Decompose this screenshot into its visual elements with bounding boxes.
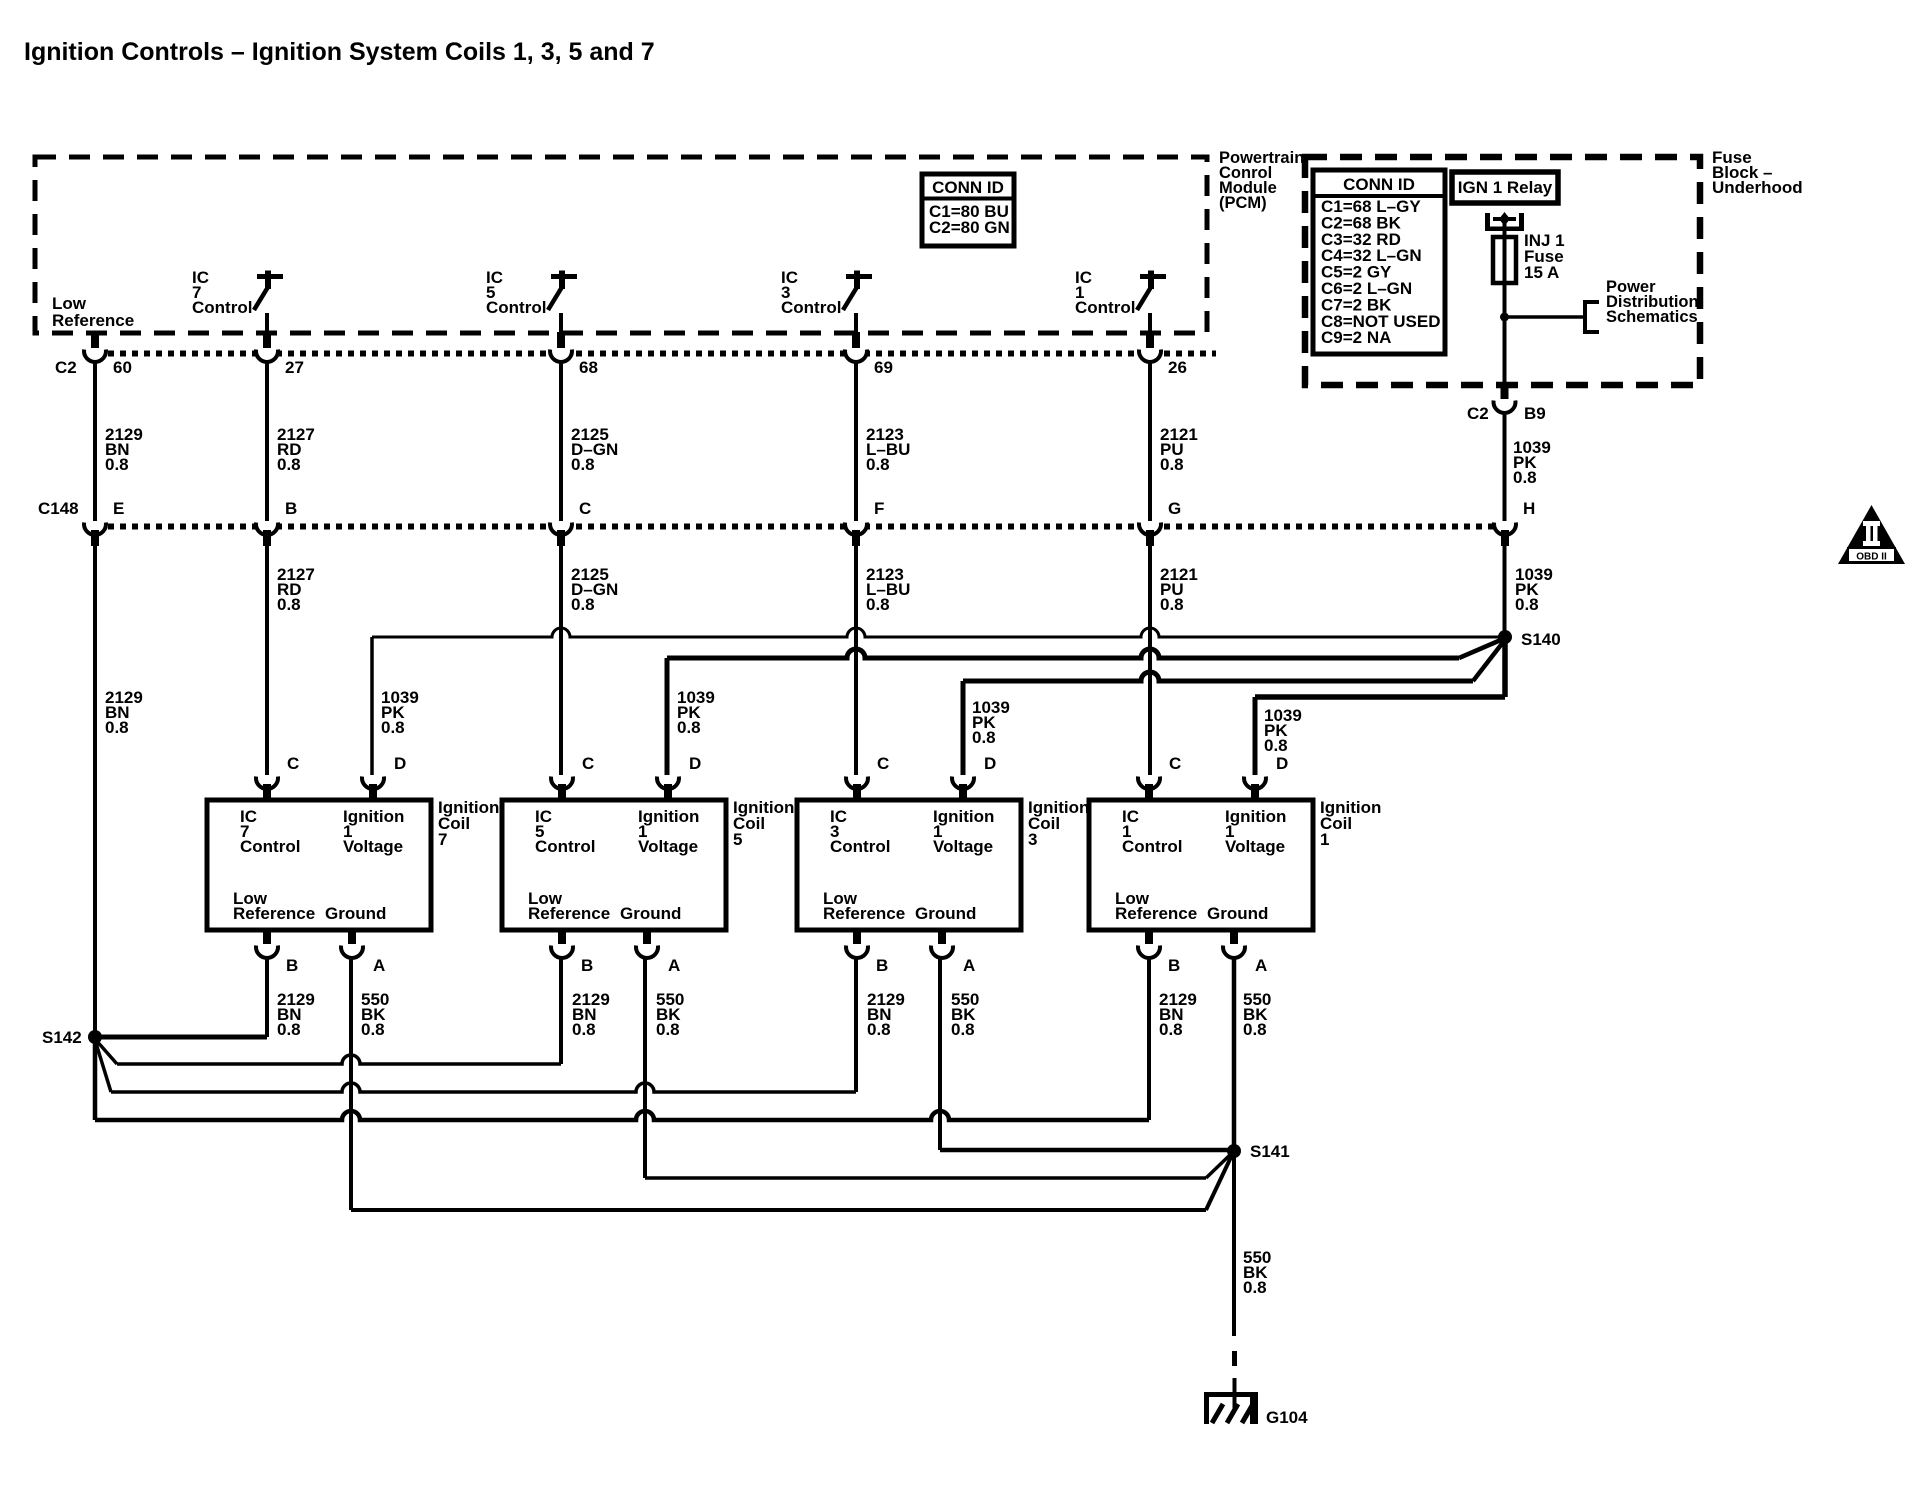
splice S142	[42, 1028, 102, 1047]
svg-text:0.8: 0.8	[571, 595, 595, 614]
svg-text:G: G	[1168, 499, 1181, 518]
wire from coil 1 pin B to S142	[95, 956, 1149, 1120]
connector C148 label	[38, 499, 79, 518]
svg-text:0.8: 0.8	[1264, 736, 1288, 755]
ignition coil 1 name label	[1320, 798, 1381, 849]
svg-text:0.8: 0.8	[381, 718, 405, 737]
svg-text:B: B	[876, 956, 888, 975]
wire from fuse to connector B9	[1503, 283, 1507, 385]
wire from coil 3 pin A to S141	[940, 956, 1232, 1150]
wire 1039 PK 0.8 feed S140 to coil 7 D	[372, 628, 1503, 775]
svg-text:S140: S140	[1521, 630, 1561, 649]
svg-text:Control: Control	[486, 298, 546, 317]
ignition coil 1 box	[1089, 800, 1313, 930]
wire 1039 PK 0.8 from B9 to C148 pin H	[1505, 413, 1551, 521]
svg-text:0.8: 0.8	[277, 1020, 301, 1039]
transistor switch IC 7 Control inside PCM	[192, 268, 283, 334]
connector C2 pin 26 terminal	[1139, 332, 1187, 377]
svg-text:69: 69	[874, 358, 893, 377]
svg-text:0.8: 0.8	[361, 1020, 385, 1039]
svg-text:C2: C2	[1467, 404, 1489, 423]
wire 2129 BN 0.8 below coil 1 pin B	[1159, 990, 1197, 1039]
ignition coil 3 name label	[1028, 798, 1089, 849]
svg-text:Reference: Reference	[823, 904, 905, 923]
svg-text:Underhood: Underhood	[1712, 178, 1803, 197]
svg-text:D: D	[984, 754, 996, 773]
junction node to power distribution	[1500, 313, 1585, 322]
svg-text:0.8: 0.8	[867, 1020, 891, 1039]
svg-text:5: 5	[733, 830, 742, 849]
svg-text:Schematics: Schematics	[1606, 308, 1698, 326]
ignition coil 3 box	[797, 800, 1021, 930]
wire 1039 PK 0.8 from C148 pin H to splice S140	[1505, 546, 1553, 637]
svg-text:A: A	[373, 956, 385, 975]
svg-text:IGN 1 Relay: IGN 1 Relay	[1458, 178, 1553, 197]
coil 7 pin D terminal	[362, 754, 406, 800]
wire 2125 D-GN 0.8 from C2 to C148	[561, 362, 618, 521]
svg-text:A: A	[1255, 956, 1267, 975]
svg-text:Reference: Reference	[528, 904, 610, 923]
wire 1039 PK 0.8 feed S140 to coil 1 D	[1255, 637, 1505, 775]
wire 2121 PU 0.8 from C2 to C148	[1150, 362, 1198, 521]
connector C2 pin 69 terminal	[845, 332, 893, 377]
coil 1 pin C terminal	[1138, 754, 1181, 800]
svg-text:B: B	[286, 956, 298, 975]
svg-text:C148: C148	[38, 499, 79, 518]
svg-text:B: B	[1168, 956, 1180, 975]
svg-text:D: D	[1276, 754, 1288, 773]
svg-text:0.8: 0.8	[1515, 595, 1539, 614]
svg-text:B9: B9	[1524, 404, 1546, 423]
ignition coil 7 box	[207, 800, 431, 930]
wire 550 BK 0.8 below coil 3 pin A	[951, 990, 979, 1039]
wire 2129 BN 0.8 below coil 5 pin B	[572, 990, 610, 1039]
wire 1039 PK 0.8 feed S140 to coil 3 D	[963, 641, 1504, 775]
svg-text:B: B	[581, 956, 593, 975]
svg-text:26: 26	[1168, 358, 1187, 377]
wire 2129 BN 0.8 below coil 3 pin B	[867, 990, 905, 1039]
svg-text:Ground: Ground	[915, 904, 976, 923]
fuse INJ 1 15 A	[1493, 231, 1565, 283]
connector C148 pin H terminal	[1494, 499, 1535, 546]
svg-text:Control: Control	[192, 298, 252, 317]
IGN 1 Relay box label	[1452, 172, 1558, 203]
connector C2 pin B9 terminal (fuse block)	[1467, 385, 1546, 423]
wire 550 BK 0.8 below coil 1 pin A	[1243, 990, 1271, 1039]
splice S141	[1227, 1142, 1290, 1161]
svg-text:27: 27	[285, 358, 304, 377]
coil 5 pin B terminal	[551, 930, 593, 975]
wire 2129 BN 0.8 from C148 pin E down to splice S142	[95, 546, 143, 1037]
coil 7 pin A terminal	[341, 930, 385, 975]
wire 2129 BN 0.8 from C2 to C148	[95, 362, 143, 521]
svg-text:C2: C2	[55, 358, 77, 377]
svg-text:G104: G104	[1266, 1408, 1308, 1427]
svg-text:C: C	[1169, 754, 1181, 773]
PCM module dashed box	[35, 157, 1207, 333]
svg-text:3: 3	[1028, 830, 1037, 849]
connector C2 pin 60 terminal	[84, 332, 132, 377]
wire 550 BK 0.8 from S141 to ground G104	[1232, 1151, 1271, 1410]
svg-text:0.8: 0.8	[277, 455, 301, 474]
Fuse Block name label	[1712, 148, 1803, 197]
wire from coil 7 pin B to S142	[95, 956, 267, 1037]
ignition coil 7 name label	[438, 798, 499, 849]
coil 3 pin B terminal	[846, 930, 888, 975]
svg-text:B: B	[285, 499, 297, 518]
svg-text:0.8: 0.8	[571, 455, 595, 474]
transistor switch IC 5 Control inside PCM	[486, 268, 577, 334]
svg-text:0.8: 0.8	[1243, 1020, 1267, 1039]
svg-text:C: C	[579, 499, 591, 518]
wire 2129 BN 0.8 below coil 7 pin B	[277, 990, 315, 1039]
svg-text:H: H	[1523, 499, 1535, 518]
svg-text:C: C	[877, 754, 889, 773]
svg-text:Voltage: Voltage	[638, 837, 698, 856]
ground G104 symbol	[1204, 1392, 1308, 1427]
svg-text:1: 1	[1320, 830, 1329, 849]
Fuse Block dashed box	[1305, 157, 1700, 385]
connector C148 pin C terminal	[550, 499, 591, 546]
svg-text:OBD II: OBD II	[1856, 552, 1887, 563]
svg-text:C2=80 GN: C2=80 GN	[929, 218, 1010, 237]
svg-text:S141: S141	[1250, 1142, 1290, 1161]
svg-text:Control: Control	[535, 837, 595, 856]
svg-text:0.8: 0.8	[866, 455, 890, 474]
connector C148 pin E terminal	[84, 499, 124, 546]
connector C148 pin B terminal	[256, 499, 297, 546]
svg-text:A: A	[963, 956, 975, 975]
wire from coil 5 pin A to S141	[645, 956, 1232, 1178]
PCM Low Reference pin label	[52, 294, 134, 330]
wire 2123 L-BU 0.8 from C2 to C148	[856, 362, 910, 521]
coil 5 pin A terminal	[636, 930, 680, 975]
Fuse Block CONN ID table	[1313, 170, 1445, 354]
svg-text:F: F	[874, 499, 884, 518]
svg-text:Control: Control	[830, 837, 890, 856]
coil 5 pin C terminal	[551, 754, 594, 800]
PCM CONN ID table	[922, 174, 1014, 246]
coil 7 pin C terminal	[256, 754, 299, 800]
wire 550 BK 0.8 below coil 5 pin A	[656, 990, 684, 1039]
ignition coil 5 name label	[733, 798, 794, 849]
svg-text:0.8: 0.8	[972, 728, 996, 747]
coil 1 pin B terminal	[1138, 930, 1180, 975]
wire 550 BK 0.8 below coil 7 pin A	[361, 990, 389, 1039]
wire from coil 5 pin B to S142	[95, 956, 561, 1064]
wire 2121 PU 0.8 from C148 to coil	[1150, 546, 1198, 775]
splice S140	[1498, 630, 1561, 649]
wire 2127 RD 0.8 from C148 to coil	[267, 546, 315, 775]
svg-text:Reference: Reference	[1115, 904, 1197, 923]
svg-text:0.8: 0.8	[656, 1020, 680, 1039]
svg-text:0.8: 0.8	[677, 718, 701, 737]
svg-text:0.8: 0.8	[1160, 455, 1184, 474]
svg-text:0.8: 0.8	[951, 1020, 975, 1039]
svg-text:Voltage: Voltage	[343, 837, 403, 856]
wire from coil 3 pin B to S142	[95, 956, 856, 1092]
connector C2 label	[55, 358, 77, 377]
coil 1 pin A terminal	[1223, 930, 1267, 975]
svg-text:Ignition Controls – Ignition S: Ignition Controls – Ignition System Coil…	[24, 38, 655, 66]
svg-text:D: D	[394, 754, 406, 773]
svg-text:60: 60	[113, 358, 132, 377]
svg-text:7: 7	[438, 830, 447, 849]
coil 1 pin D terminal	[1244, 754, 1288, 800]
wire 1039 PK 0.8 feed S140 to coil 5 D	[667, 639, 1503, 775]
coil 7 pin B terminal	[256, 930, 298, 975]
svg-text:Reference: Reference	[52, 311, 134, 330]
svg-text:Control: Control	[781, 298, 841, 317]
power distribution schematics bracket	[1585, 278, 1699, 332]
wire 2127 RD 0.8 from C2 to C148	[267, 362, 315, 521]
svg-text:Ground: Ground	[325, 904, 386, 923]
svg-text:C9=2 NA: C9=2 NA	[1321, 328, 1391, 347]
OBD II marker	[1838, 505, 1905, 564]
svg-text:Control: Control	[1122, 837, 1182, 856]
PCM name label	[1219, 149, 1304, 212]
svg-text:Voltage: Voltage	[933, 837, 993, 856]
svg-text:CONN ID: CONN ID	[932, 178, 1004, 197]
svg-text:(PCM): (PCM)	[1219, 194, 1267, 212]
connector C2 pin 27 terminal	[256, 332, 304, 377]
svg-text:Control: Control	[240, 837, 300, 856]
svg-text:E: E	[113, 499, 124, 518]
svg-text:15 A: 15 A	[1524, 263, 1559, 282]
svg-text:0.8: 0.8	[1159, 1020, 1183, 1039]
svg-text:Ground: Ground	[620, 904, 681, 923]
wire from coil 7 pin A to S141	[351, 956, 1232, 1210]
svg-text:A: A	[668, 956, 680, 975]
transistor switch IC 1 Control inside PCM	[1075, 268, 1166, 334]
ignition coil 5 box	[502, 800, 726, 930]
connector C148 dotted harness line	[84, 524, 1494, 530]
svg-text:68: 68	[579, 358, 598, 377]
wire 2125 D-GN 0.8 from C148 to coil	[561, 546, 618, 775]
coil 3 pin A terminal	[931, 930, 975, 975]
svg-text:C: C	[582, 754, 594, 773]
connector C2 dotted harness line	[84, 351, 1216, 357]
svg-text:0.8: 0.8	[1243, 1278, 1267, 1297]
svg-text:Voltage: Voltage	[1225, 837, 1285, 856]
coil 3 pin C terminal	[846, 754, 889, 800]
svg-text:0.8: 0.8	[1513, 468, 1537, 487]
svg-text:0.8: 0.8	[105, 718, 129, 737]
svg-text:S142: S142	[42, 1028, 82, 1047]
wire 2123 L-BU 0.8 from C148 to coil	[856, 546, 910, 775]
connector C2 pin 68 terminal	[550, 332, 598, 377]
svg-text:Reference: Reference	[233, 904, 315, 923]
svg-text:CONN ID: CONN ID	[1343, 175, 1415, 194]
svg-text:0.8: 0.8	[277, 595, 301, 614]
title	[24, 38, 655, 66]
coil 3 pin D terminal	[952, 754, 996, 800]
relay contact terminal symbol	[1485, 212, 1524, 237]
coil 5 pin D terminal	[657, 754, 701, 800]
svg-text:0.8: 0.8	[866, 595, 890, 614]
connector C148 pin G terminal	[1139, 499, 1181, 546]
svg-text:C: C	[287, 754, 299, 773]
svg-text:Control: Control	[1075, 298, 1135, 317]
svg-text:D: D	[689, 754, 701, 773]
transistor switch IC 3 Control inside PCM	[781, 268, 872, 334]
svg-text:0.8: 0.8	[105, 455, 129, 474]
wire from coil 1 pin A through S141	[1232, 956, 1237, 1151]
svg-text:0.8: 0.8	[572, 1020, 596, 1039]
svg-text:0.8: 0.8	[1160, 595, 1184, 614]
svg-text:Ground: Ground	[1207, 904, 1268, 923]
connector C148 pin F terminal	[845, 499, 884, 546]
